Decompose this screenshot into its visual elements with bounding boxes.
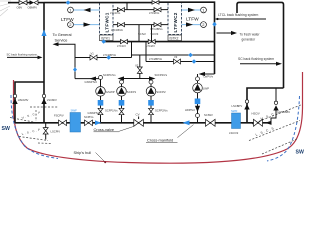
svg-text:LSCBPV: LSCBPV [232,104,243,108]
wire LTCL branch [216,18,267,20]
blue diamond on bypass stbd [192,59,197,63]
svg-text:LTC2IVo: LTC2IVo [149,11,160,15]
blue block pump LWP [195,99,201,105]
svg-text:SC back flushing system: SC back flushing system [7,53,38,57]
wire fresh water branch [217,32,232,34]
svg-text:LSCIV2: LSCIV2 [229,131,239,135]
wire row3 suction header [104,41,215,43]
wire cross-manifold [15,122,271,124]
filter SWF1 [70,113,81,133]
valve top header small [152,1,159,5]
wire to general service [57,44,75,78]
valve HSCIV stbd [254,119,263,126]
svg-text:GSWPIVd: GSWPIVd [85,80,98,84]
svg-text:To General: To General [53,32,72,37]
pump SCFP2 [146,87,156,97]
valve V3 bypass stbd [174,59,181,64]
svg-text:LTC1BPVo: LTC1BPVo [103,53,117,57]
svg-text:GSWP: GSWP [106,90,115,94]
valve LSCPIV low chest port [45,123,47,140]
blue block pump A [98,100,104,106]
wire bypass stbd y61.5 [146,61,215,63]
low sea chest starboard dashed boundary [249,121,300,155]
ship hull port side (red) [13,72,302,163]
cooler U1 LTFWC1 [100,2,114,34]
valve V2 center [137,67,142,73]
valve OBNRV (non-return) [30,0,35,5]
flow arrow right on manifold [95,120,101,125]
svg-text:SCPIVo: SCPIVo [84,115,94,119]
high sea chest port dashed boundary [10,107,58,123]
wire pump C suction [150,96,152,123]
svg-text:SWF: SWF [71,109,78,113]
wire pump A suction [100,96,102,123]
svg-text:OBNRV: OBNRV [28,5,38,9]
valve OBV [19,0,27,4]
svg-text:HSCIV: HSCIV [252,112,260,116]
svg-text:SCIV2: SCIV2 [138,32,146,36]
strainer ISTK2 [168,35,182,41]
wire crossbar y55 [132,54,215,56]
cooler U2 LTFWC2 [168,2,182,34]
flow arrow left on manifold [183,120,190,125]
svg-text:LTCL back flushing system: LTCL back flushing system [218,13,259,17]
svg-text:LWP: LWP [203,87,209,91]
svg-text:LTFW: LTFW [61,17,74,23]
svg-text:ISTK2: ISTK2 [170,37,179,41]
circled node 2 (stbd) [201,22,207,28]
wire back flushing arrow stbd [240,63,278,65]
low sea chest port dashed boundary [19,137,52,144]
svg-text:LTC2IV: LTC2IV [146,44,155,48]
svg-text:V3: V3 [174,55,178,59]
valve SCIWV [206,119,216,126]
svg-text:To fresh water: To fresh water [240,33,261,37]
svg-text:LSCMIV: LSCMIV [47,98,57,102]
wire top header right [159,2,215,74]
blue diamond on row3 [101,39,106,43]
valve SCPIVo [85,120,93,126]
svg-text:SCIWV: SCIWV [204,113,213,117]
high sea chest starboard dashed boundary [252,105,302,125]
valve LSCBPV hull suction stbd [245,100,248,103]
wire LTFW out 1 (stbd) [182,9,201,11]
svg-text:SCFP2: SCFP2 [156,90,166,94]
sea water line starboard (blue dashed) [267,96,300,161]
svg-text:Cross-valve: Cross-valve [94,127,115,132]
valve HSCMIV hull suction [13,94,16,97]
wire pump A discharge line [75,78,101,80]
svg-text:generator: generator [242,38,257,42]
circled node 2 (port) [68,22,74,28]
valve SCFP2IVs lower [149,108,154,114]
pump LWP [193,83,203,93]
blue diamond on stbd riser [212,22,216,27]
blue diamond on top header [66,0,71,4]
svg-text:SCFP1IVs: SCFP1IVs [105,109,118,113]
svg-text:LTC1IVo: LTC1IVo [110,11,121,15]
wire high chest stbd drop [275,88,277,101]
wire drop from header to row1 [126,3,128,10]
svg-text:SW: SW [296,150,304,156]
wire pump BC suction tee y78.5 [119,78,154,80]
svg-text:LTFWC2: LTFWC2 [173,12,178,32]
wire row1 between coolers [113,9,168,11]
wire mid drop SCIV3 [151,25,153,42]
wire pump B suction [121,96,123,123]
valve LTC2IV [148,39,155,43]
flow arrow left manifold end [265,121,272,125]
svg-text:FSCPIV: FSCPIV [54,114,64,118]
wire row2 between coolers [113,24,168,26]
svg-text:LTFW: LTFW [186,17,199,23]
valve circle above pump C [150,79,152,87]
valve LTC1IVo [118,8,125,12]
valve LTC1IV [121,39,128,43]
svg-text:SCIV3: SCIV3 [151,32,159,36]
wire LWP feed line y74 [202,73,215,75]
svg-text:V2: V2 [135,64,139,68]
wire bypass port y57.5 [75,57,132,59]
svg-text:LTFWC1: LTFWC1 [104,12,109,32]
valve SCFP1IVs lower [119,108,124,114]
blue diamond on bypass port [106,55,111,59]
valve circle above pump A [100,79,102,87]
svg-text:SWF: SWF [231,109,238,113]
svg-text:SCFP1: SCFP1 [127,90,137,94]
svg-text:V1: V1 [91,52,95,56]
circled node 1 (port) [68,7,74,13]
wire overboard line top [8,2,19,4]
svg-text:OBV: OBV [17,5,23,9]
valve LTC2IVo [154,8,161,12]
svg-text:ISTK1: ISTK1 [101,37,110,41]
svg-text:Cross-manifold: Cross-manifold [147,137,173,142]
flow arrow down LWP [195,106,200,112]
valve circle above pump LWP [197,74,199,84]
svg-text:LTC1BIVo: LTC1BIVo [111,28,124,32]
wire mid drop SCIV2 [138,25,140,42]
wire sea chest crossbar port y82 [15,82,44,123]
valve circle LWP lower [196,114,200,118]
pump GSWP [96,87,106,97]
svg-text:HSCBBV: HSCBBV [279,110,290,114]
wire LTFW in 2 (port) [74,24,100,26]
decorative corner rays [0,1,11,16]
svg-text:Service: Service [55,38,68,43]
circled node 1 (stbd) [201,7,207,13]
back flushing frame top [237,2,284,88]
svg-text:LTC1IV: LTC1IV [117,44,126,48]
valve GSWPIVs [98,108,103,114]
svg-text:LWPIVd: LWPIVd [185,108,195,112]
svg-text:GSWPIVs: GSWPIVs [88,111,101,115]
valve V1 bypass port [90,55,97,60]
valve LTC2BIVo [154,23,161,27]
valve CV cross valve [134,119,144,126]
blue block pump B [119,100,125,106]
valve HSCBBV hull suction stbd [274,101,277,104]
flow arrow up on riser [41,30,46,37]
filter SWF2 [232,113,241,129]
valve LTC1BIVo [118,23,125,27]
blue diamond on crossbar [188,53,193,57]
wire row3 drop right [145,42,147,62]
valve FSCPIV [59,120,67,126]
svg-text:SCFP2IVs: SCFP2IVs [155,109,168,113]
svg-text:Ship's hull: Ship's hull [74,150,92,155]
wire LTFW out 1 (port) [74,9,100,11]
sea water line port (blue dashed) [11,95,58,159]
wire row3 drop left [131,42,133,58]
svg-text:LTC2BPVo: LTC2BPVo [149,57,163,61]
svg-text:LTC2BIVo: LTC2BIVo [151,27,164,31]
valve LSCMIV hull suction [42,94,45,97]
svg-text:HSCMIV: HSCMIV [18,98,29,102]
svg-text:SC back flushing system: SC back flushing system [238,57,274,61]
wire pump LWP down [197,93,199,123]
blue block pump C [148,100,154,106]
svg-text:LWPIVs: LWPIVs [204,75,214,79]
svg-text:SCFP1IVs: SCFP1IVs [103,73,116,77]
wire main riser x44 [43,3,45,123]
wire back flushing arrow port [7,56,39,58]
strainer ISTK1 [100,35,114,41]
svg-text:SCFP2IVs: SCFP2IVs [155,73,168,77]
svg-text:LSCPIV: LSCPIV [51,130,61,134]
wire LTFW in 2 (stbd) [182,24,201,26]
valve circle above pump B [121,79,123,87]
blue marker on x75 [73,67,77,72]
svg-text:SW: SW [2,126,10,132]
wire center drop to pumps [139,55,141,79]
wire sea chest crossbar stbd y88 [247,88,284,123]
wire top header [44,2,152,4]
svg-text:CV: CV [136,113,140,117]
pump SCFP1 [117,87,127,97]
